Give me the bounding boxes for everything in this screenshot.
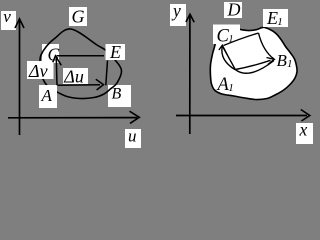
svg-text:1: 1 xyxy=(228,82,234,94)
svg-text:Δu: Δu xyxy=(63,66,84,86)
svg-text:E: E xyxy=(266,8,278,28)
label v xyxy=(1,7,16,30)
label A xyxy=(39,85,57,108)
label C xyxy=(42,44,60,65)
region D blob (white filled) xyxy=(210,26,297,99)
svg-text:1: 1 xyxy=(277,16,283,28)
arrow A to C (delta-v side) xyxy=(53,56,62,85)
svg-text:y: y xyxy=(171,1,181,21)
svg-text:1: 1 xyxy=(287,58,293,70)
curvilinear side C1-E1 (top) xyxy=(224,33,259,46)
svg-text:u: u xyxy=(128,127,137,146)
label x xyxy=(296,120,313,145)
arrow A to B (delta-u side) xyxy=(58,79,104,90)
label y xyxy=(170,1,186,27)
x-axis (right figure) xyxy=(176,110,310,122)
label B1 xyxy=(277,51,293,70)
label u xyxy=(125,127,141,149)
label E xyxy=(106,42,126,62)
svg-text:B: B xyxy=(112,86,122,103)
svg-text:Δv: Δv xyxy=(28,61,48,81)
curvilinear side E1-B1 (right) xyxy=(259,33,275,59)
rectangle top side C-E xyxy=(57,55,105,57)
rectangle right side E-B xyxy=(106,61,108,86)
label E1 xyxy=(263,8,288,28)
label Delta-u xyxy=(63,66,88,86)
label A1 xyxy=(216,75,234,95)
label C1 (over blob) xyxy=(213,25,240,47)
label G xyxy=(69,7,87,27)
label B xyxy=(108,85,131,107)
svg-text:E: E xyxy=(109,42,121,62)
arrow A1 to C1 (straight secant) xyxy=(219,45,236,69)
svg-text:D: D xyxy=(227,0,241,20)
curvilinear side A1-C1 (curved) xyxy=(222,47,235,70)
svg-text:G: G xyxy=(72,7,85,27)
arrow A1 to B1 (straight secant) xyxy=(235,58,274,70)
u-axis (left figure) xyxy=(8,111,139,123)
svg-text:x: x xyxy=(299,120,308,140)
svg-text:B: B xyxy=(277,51,288,70)
label D xyxy=(224,0,242,20)
label Delta-v xyxy=(27,61,54,81)
curvilinear side A1-B1 (curved) xyxy=(235,61,274,74)
y-axis (right figure) xyxy=(186,14,194,134)
v-axis (left figure) xyxy=(15,19,24,135)
region G blob outline xyxy=(40,29,122,99)
svg-text:v: v xyxy=(3,7,11,26)
svg-text:A: A xyxy=(41,86,53,105)
